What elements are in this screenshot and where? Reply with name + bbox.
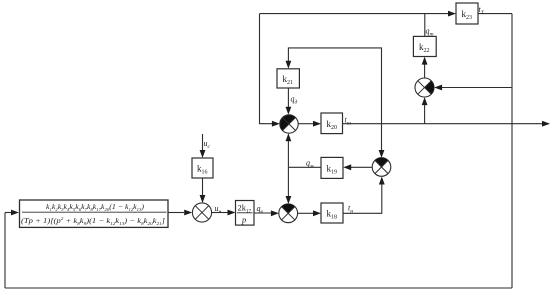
- block k21: [277, 69, 299, 88]
- wire: outer bottom feedback line: [5, 287, 512, 289]
- svg-text:tн: tн: [348, 204, 353, 215]
- arrowhead into k22 bottom: [422, 57, 428, 65]
- wire: top feedback line from k22 tee to k23: [260, 13, 450, 15]
- svg-text:qт: qт: [426, 27, 434, 38]
- block integrator 2k17/p: [236, 201, 255, 226]
- wire: k23 output to right vertical: [478, 13, 512, 15]
- wire: outer left vertical feedback: [4, 213, 6, 289]
- wire: W output into junction A: [168, 212, 184, 214]
- wire: outer right vertical feedback: [511, 14, 513, 288]
- block k16: [192, 158, 213, 178]
- arrowhead into k16 top (u_c): [200, 150, 206, 158]
- arrowhead into integrator block: [228, 210, 236, 216]
- svg-text:tТ: tТ: [479, 5, 485, 16]
- summing junction D (top sector filled): [372, 158, 391, 177]
- wire: t_sh tee down into junction D top: [381, 124, 383, 150]
- arrowhead into k23 left: [448, 11, 456, 17]
- block k23: [456, 3, 478, 24]
- wire: u_c input into k16: [202, 134, 204, 150]
- svg-text:(Tp + 1)[(p2 + k8k9)(1 − k12k1: (Tp + 1)[(p2 + k8k9)(1 − k12k13) − k8k20…: [21, 216, 165, 226]
- wire: t_sh tee up into junction E bottom: [424, 105, 426, 124]
- arrowhead into junction E right: [434, 85, 442, 91]
- summing junction E (right sector filled): [415, 78, 434, 97]
- block W(p) transfer function: [20, 200, 169, 227]
- wire: feedback into W block: [5, 212, 11, 214]
- arrowhead into junction D top: [379, 150, 385, 158]
- wire: k20 output t_sh main line to output arrow: [343, 123, 543, 125]
- wire: q_m tee up into junction C bottom: [287, 141, 289, 167]
- wire: q_m tee down into junction B top: [287, 167, 289, 196]
- arrowhead into junction B left: [271, 210, 279, 216]
- wire: left loop vertical down to junction C: [260, 14, 273, 124]
- arrowhead into junction C left: [272, 121, 280, 127]
- svg-text:tш: tш: [345, 116, 352, 127]
- arrowhead into k18: [313, 210, 321, 216]
- svg-text:qд: qд: [291, 95, 298, 106]
- wire: junction E output up into k22: [424, 65, 426, 79]
- arrowhead into k20: [313, 121, 321, 127]
- wire: k18 output t_n up into junction D bottom: [343, 185, 382, 214]
- wire: junction D output into k19: [351, 166, 372, 168]
- summing junction C (left and top sectors filled): [280, 115, 298, 133]
- arrowhead into junction D bottom: [379, 177, 385, 185]
- svg-text:uн: uн: [215, 204, 222, 215]
- arrowhead into junction C bottom: [286, 133, 292, 141]
- wire: k16 output into junction A: [202, 178, 204, 195]
- wire: t_sh tee up and across to k21 input: [288, 48, 381, 124]
- wire: integrator output q_v into junction B: [254, 212, 271, 214]
- arrowhead into junction E bottom: [422, 97, 428, 105]
- wire: k19 output q_m to tee: [288, 166, 321, 168]
- arrowhead into junction A top: [200, 195, 206, 203]
- block k22: [413, 36, 436, 56]
- block k19: [321, 157, 343, 178]
- arrowhead into k19 right: [343, 164, 351, 170]
- wire: k21 output q_d into junction C top: [287, 88, 289, 107]
- wire: k22 output up to top line: [424, 14, 426, 37]
- summing junction A (plain): [192, 203, 211, 222]
- arrowhead into junction C top: [286, 107, 292, 115]
- wire: right vertical into junction E right: [442, 87, 512, 89]
- wire: junction B output into k18: [298, 212, 313, 214]
- block k18: [321, 203, 343, 223]
- arrowhead into junction A left: [184, 210, 192, 216]
- arrowhead into W block: [11, 210, 19, 216]
- svg-text:uc: uc: [204, 139, 211, 150]
- arrowhead into k21 top: [286, 61, 292, 69]
- arrowhead main output right edge: [542, 121, 550, 127]
- block k20: [321, 113, 343, 134]
- wire: junction A output u_n into integrator block: [212, 212, 228, 214]
- arrowhead into junction B top: [286, 196, 292, 204]
- wire: junction C output into k20: [298, 123, 313, 125]
- summing junction B (top sector filled): [279, 204, 298, 223]
- svg-text:p: p: [241, 215, 246, 225]
